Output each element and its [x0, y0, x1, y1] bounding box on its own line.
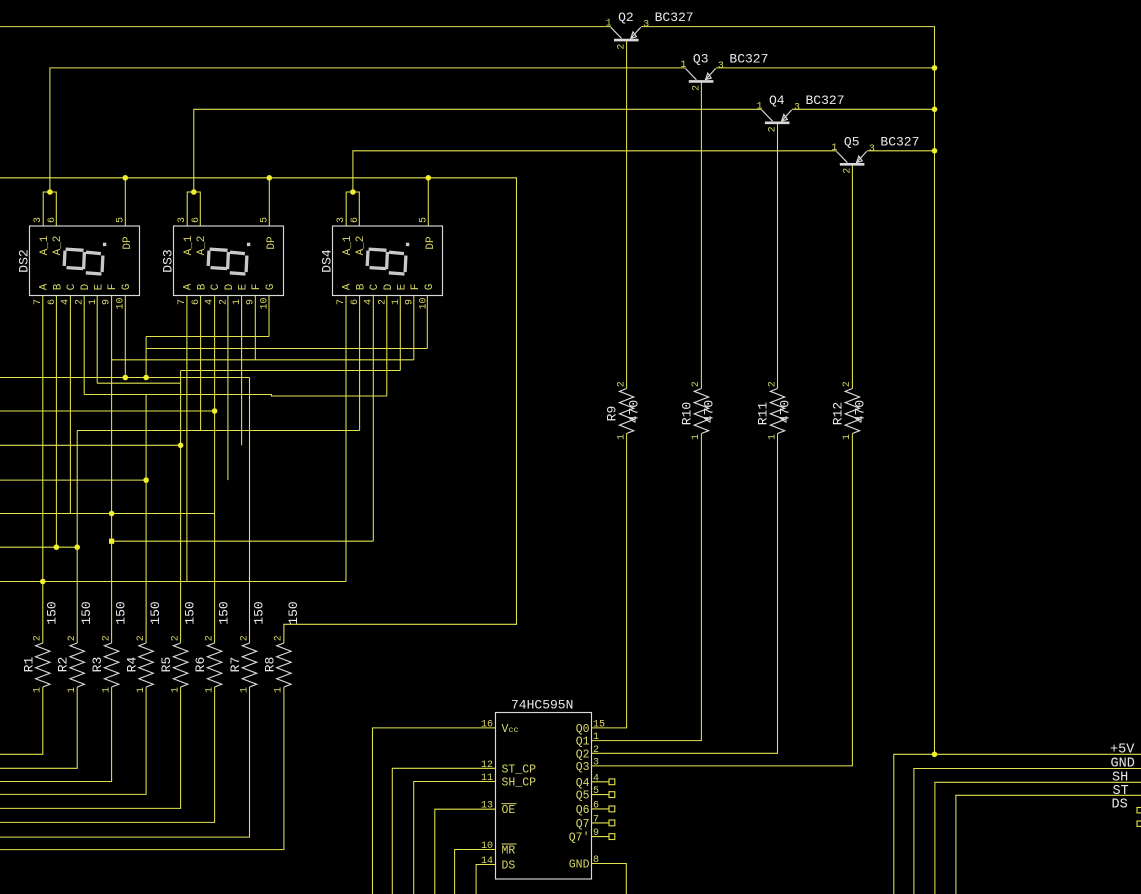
svg-text:R2: R2: [56, 657, 71, 673]
wire Q2 base net from left edge: [0, 26, 611, 28]
svg-text:R3: R3: [90, 657, 105, 673]
svg-text:Q7': Q7': [569, 832, 590, 845]
svg-text:14: 14: [481, 856, 493, 867]
svg-text:3: 3: [336, 217, 347, 223]
pin stub Q7' unconnected: [592, 834, 615, 840]
wire R5 bottom to left edge: [0, 687, 181, 808]
wire R3 bottom to left edge: [0, 687, 112, 782]
svg-text:11: 11: [481, 773, 493, 784]
svg-text:DS: DS: [502, 860, 516, 873]
transistor Q2 BC327: [611, 27, 641, 40]
svg-text:B: B: [196, 283, 208, 290]
wire DS2 pin F / R3 column: [111, 296, 113, 644]
pin stub Q5 unconnected: [592, 792, 615, 798]
resistor R9: [619, 389, 633, 434]
svg-text:5: 5: [116, 217, 127, 223]
svg-text:150: 150: [251, 601, 266, 624]
svg-text:1: 1: [391, 299, 402, 305]
wire R10 to Q1 output: [592, 434, 702, 741]
wire net C gather: [112, 540, 374, 542]
wire 74HC595N ST_CP input: [392, 768, 495, 894]
resistor R3: [104, 643, 118, 687]
svg-text:C: C: [210, 283, 222, 290]
resistor R4: [139, 643, 153, 687]
wire R2 bottom to left edge: [0, 687, 77, 768]
svg-text:BC327: BC327: [880, 134, 919, 149]
resistor R2: [70, 643, 84, 687]
wire DS4 pin B column: [359, 296, 361, 431]
svg-text:A: A: [183, 283, 195, 290]
svg-text:150: 150: [114, 601, 129, 624]
wire DS3 pin D column: [227, 296, 229, 481]
wire DS4 pin G column: [426, 296, 428, 349]
svg-text:E: E: [94, 283, 106, 290]
svg-text:1: 1: [33, 687, 44, 693]
transistor Q4 BC327: [762, 110, 792, 123]
svg-text:1: 1: [767, 434, 778, 440]
svg-text:10: 10: [259, 297, 270, 309]
svg-text:9: 9: [405, 299, 416, 305]
wire DS3 pin C / R6 column: [214, 296, 216, 644]
wire DS2 pin A / R1 column: [42, 296, 44, 644]
svg-text:7: 7: [177, 299, 188, 305]
wire 74HC595N SH_CP input: [414, 782, 496, 894]
svg-text:1: 1: [616, 434, 627, 440]
wire R2 column: [76, 431, 78, 644]
svg-text:R1: R1: [21, 657, 36, 673]
svg-text:R5: R5: [159, 657, 174, 673]
svg-text:Q7: Q7: [576, 818, 590, 831]
junction net C R3: [109, 511, 115, 517]
svg-text:1: 1: [88, 299, 99, 305]
svg-text:DS3: DS3: [161, 249, 176, 272]
svg-text:3: 3: [794, 102, 800, 113]
overbar for MR: [502, 843, 517, 845]
svg-text:Vcc: Vcc: [502, 723, 519, 736]
svg-text:F: F: [107, 284, 119, 291]
svg-text:Q5: Q5: [576, 790, 590, 803]
svg-text:10: 10: [481, 841, 493, 852]
wire Q5 base net to DS4 commons: [353, 151, 837, 192]
svg-text:A_1: A_1: [342, 235, 354, 255]
svg-text:E: E: [238, 283, 250, 290]
svg-text:D: D: [383, 283, 395, 290]
svg-text:1: 1: [232, 299, 243, 305]
svg-text:13: 13: [481, 801, 493, 812]
wire 74HC595N OE input: [435, 809, 496, 894]
svg-text:3: 3: [643, 20, 649, 31]
svg-text:R10: R10: [679, 402, 694, 425]
wire DP bus to R8: [0, 178, 517, 643]
svg-text:1: 1: [756, 101, 762, 112]
wire 74HC595N DS input: [476, 865, 495, 894]
svg-text:A: A: [342, 283, 354, 290]
svg-text:R7: R7: [228, 657, 243, 673]
svg-text:Q5: Q5: [844, 134, 860, 149]
wire +5V net: [894, 754, 1141, 894]
svg-text:R12: R12: [830, 402, 845, 425]
svg-text:470: 470: [627, 400, 642, 423]
wire 74HC595N GND to bottom: [592, 864, 627, 894]
svg-text:C: C: [66, 283, 78, 290]
svg-text:A: A: [39, 283, 51, 290]
wire R8 bottom to left edge: [0, 687, 284, 850]
wire DS4 DP pin riser: [427, 178, 429, 226]
svg-text:Q2: Q2: [618, 10, 634, 25]
svg-text:2: 2: [274, 635, 285, 641]
svg-text:DP: DP: [425, 236, 437, 250]
svg-text:10: 10: [115, 297, 126, 309]
wire Q3 collector to R10: [700, 81, 702, 388]
svg-text:6: 6: [47, 217, 58, 223]
wire Q4 collector to R11: [777, 123, 779, 389]
svg-text:SH_CP: SH_CP: [502, 777, 537, 790]
svg-text:4: 4: [593, 773, 599, 784]
svg-text:GND: GND: [1111, 757, 1135, 772]
svg-text:BC327: BC327: [655, 10, 694, 25]
svg-text:3: 3: [33, 217, 44, 223]
wire DS2 DP pin riser: [124, 178, 126, 226]
svg-text:10: 10: [418, 297, 429, 309]
wire R9 to Q0 output: [592, 434, 627, 728]
svg-text:BC327: BC327: [806, 93, 845, 108]
svg-text:1: 1: [170, 687, 181, 693]
wire R5 column: [180, 371, 182, 644]
wire GND net: [914, 769, 1141, 894]
resistor R11: [770, 389, 784, 434]
svg-text:F: F: [251, 284, 263, 291]
svg-text:OE: OE: [502, 804, 516, 817]
svg-text:7: 7: [336, 299, 347, 305]
junction DP bus DS2: [123, 175, 129, 181]
wire net G bus: [0, 377, 250, 379]
svg-text:R11: R11: [756, 402, 771, 426]
svg-text:150: 150: [217, 601, 232, 624]
svg-text:Q3: Q3: [693, 51, 709, 66]
wire net E bus: [0, 444, 181, 446]
wire DS3 pin G column: [268, 296, 270, 337]
wire Q4 emitter to rail: [792, 108, 935, 110]
svg-text:150: 150: [79, 601, 94, 624]
wire net F bus: [0, 410, 215, 412]
svg-text:A_2: A_2: [196, 236, 208, 256]
svg-text:2: 2: [33, 635, 44, 641]
wire DS3 DP pin riser: [268, 178, 270, 226]
junction net D R4: [143, 477, 149, 483]
svg-text:6: 6: [350, 217, 361, 223]
svg-text:1: 1: [67, 687, 78, 693]
resistor R12: [845, 389, 859, 434]
svg-text:74HC595N: 74HC595N: [511, 698, 573, 713]
svg-text:4: 4: [205, 299, 216, 305]
svg-text:G: G: [121, 284, 133, 291]
junction rail Q5: [932, 148, 938, 154]
resistor R1: [36, 643, 50, 687]
svg-text:MR: MR: [502, 845, 516, 858]
svg-text:12: 12: [481, 760, 493, 771]
svg-text:A_1: A_1: [39, 235, 51, 255]
7-segment display DS3: [174, 226, 284, 296]
wire net C bus: [0, 513, 215, 515]
7-segment display DS2: [30, 226, 140, 296]
wire DS4 pin A column: [345, 296, 347, 582]
junction net A R1: [40, 579, 46, 585]
wire 74HC595N MR input: [455, 850, 496, 894]
wire net A bus: [0, 581, 346, 583]
svg-text:6: 6: [191, 217, 202, 223]
wire DS3 pin E column: [241, 296, 243, 446]
svg-text:B: B: [355, 283, 367, 290]
resistor R8: [277, 643, 291, 687]
junction DS4 commons: [350, 189, 356, 195]
svg-text:DP: DP: [266, 236, 278, 250]
svg-text:2: 2: [593, 745, 599, 756]
svg-text:2: 2: [617, 44, 628, 50]
svg-text:E: E: [397, 283, 409, 290]
transistor Q5 BC327: [837, 151, 867, 164]
wire DS4 pin E column: [399, 296, 401, 371]
svg-text:+5V: +5V: [1110, 743, 1135, 758]
wire R7 bottom to left edge: [0, 687, 250, 837]
wire net E link: [97, 382, 180, 384]
wire Q3 emitter to rail: [716, 67, 935, 69]
svg-text:9: 9: [593, 828, 599, 839]
svg-text:1: 1: [593, 732, 599, 743]
transistor Q3 BC327: [686, 69, 716, 82]
svg-text:2: 2: [842, 168, 853, 174]
resistor R6: [207, 643, 221, 687]
junction net G collector: [143, 375, 149, 381]
svg-text:5: 5: [593, 786, 599, 797]
wire net G collector vertical: [145, 337, 147, 378]
svg-text:4: 4: [61, 299, 72, 305]
svg-text:9: 9: [246, 299, 257, 305]
svg-text:2: 2: [842, 381, 853, 387]
svg-text:A_2: A_2: [52, 236, 64, 256]
junction DS3 commons: [191, 189, 197, 195]
svg-text:2: 2: [136, 635, 147, 641]
wire SH net: [935, 782, 1141, 894]
svg-text:8: 8: [593, 855, 599, 866]
svg-text:Q2: Q2: [576, 748, 590, 761]
svg-text:470: 470: [701, 400, 716, 423]
svg-text:150: 150: [45, 601, 60, 624]
junction +5V rail: [932, 752, 938, 758]
svg-text:9: 9: [102, 299, 113, 305]
resistor R10: [694, 389, 708, 434]
resistor R7: [242, 643, 256, 687]
svg-text:D: D: [224, 283, 236, 290]
svg-text:1: 1: [842, 434, 853, 440]
junction net E R5: [178, 443, 184, 449]
pin stub Q6 unconnected: [592, 806, 615, 812]
wire DS2 pin C column: [69, 296, 71, 514]
svg-text:1: 1: [831, 143, 837, 154]
svg-text:G: G: [424, 284, 436, 291]
svg-text:R8: R8: [262, 657, 277, 673]
wire net E gather: [181, 370, 401, 372]
wire 74HC595N Vcc input: [373, 728, 496, 894]
wire R1 bottom to left edge: [0, 687, 43, 754]
pin square right edge upper: [1137, 808, 1141, 813]
wire Q5 collector to R12: [851, 164, 853, 388]
svg-text:2: 2: [239, 635, 250, 641]
junction DS2 commons: [47, 189, 53, 195]
svg-text:Q4: Q4: [576, 777, 590, 790]
svg-text:R6: R6: [193, 657, 208, 673]
svg-text:A_1: A_1: [183, 235, 195, 255]
wire R11 to Q2 output: [592, 434, 778, 754]
svg-text:A_2: A_2: [355, 236, 367, 256]
wire DS3 pin B column: [200, 296, 202, 431]
svg-text:15: 15: [593, 719, 605, 730]
wire DS4 pin F column: [413, 296, 415, 360]
junction DP bus DS4: [426, 175, 432, 181]
IC U1 74HC595N box: [496, 713, 592, 880]
svg-text:2: 2: [691, 85, 702, 91]
junction rail Q4: [932, 107, 938, 113]
svg-text:2: 2: [616, 381, 627, 387]
wire R7 column: [249, 378, 251, 644]
svg-text:Q1: Q1: [576, 736, 590, 749]
svg-text:150: 150: [183, 601, 198, 624]
wire DS2 pin G column: [124, 296, 126, 378]
wire net G lower link: [146, 348, 427, 350]
svg-text:2: 2: [691, 381, 702, 387]
svg-text:2: 2: [170, 635, 181, 641]
wire R4 column: [145, 395, 147, 644]
wire Q4 base net to DS3 commons: [194, 109, 762, 192]
svg-text:2: 2: [204, 635, 215, 641]
wire Q3 base net to DS2 commons: [50, 68, 686, 192]
wire ST net: [956, 795, 1141, 894]
svg-text:1: 1: [136, 687, 147, 693]
svg-text:4: 4: [364, 299, 375, 305]
svg-text:3: 3: [718, 61, 724, 72]
svg-text:R4: R4: [125, 657, 140, 673]
svg-text:2: 2: [101, 635, 112, 641]
svg-text:DS2: DS2: [17, 249, 32, 272]
svg-text:G: G: [265, 284, 277, 291]
svg-text:Q4: Q4: [769, 93, 785, 108]
svg-text:2: 2: [377, 299, 388, 305]
wire DS2 pin E column: [96, 296, 98, 384]
wire net B bus: [0, 546, 77, 548]
svg-text:2: 2: [218, 299, 229, 305]
overbar for OE: [502, 803, 517, 805]
wire net B gather: [77, 430, 359, 432]
resistor R5: [173, 643, 187, 687]
wire DS3 pin A column: [186, 296, 188, 582]
wire net G upper link: [146, 336, 269, 338]
wire DS2 pin B column: [55, 296, 57, 548]
svg-text:6: 6: [593, 800, 599, 811]
wire Q2 collector to R9: [626, 40, 628, 388]
svg-text:16: 16: [481, 719, 493, 730]
wire net F gather: [112, 359, 414, 361]
wire DS3 pin F column: [254, 296, 256, 360]
svg-text:470: 470: [852, 400, 867, 423]
svg-text:5: 5: [419, 217, 430, 223]
svg-text:DS: DS: [1112, 798, 1128, 813]
wire net D link left: [84, 395, 387, 397]
svg-text:1: 1: [680, 60, 686, 71]
svg-text:F: F: [410, 284, 422, 291]
svg-text:6: 6: [350, 299, 361, 305]
svg-text:7: 7: [33, 299, 44, 305]
svg-text:C: C: [369, 283, 381, 290]
7-segment display DS4: [333, 226, 443, 296]
wire R4 bottom to left edge: [0, 687, 146, 794]
svg-text:3: 3: [869, 144, 875, 155]
wire DS2 pin D column: [83, 296, 85, 395]
svg-text:2: 2: [67, 635, 78, 641]
svg-text:R9: R9: [605, 406, 620, 422]
svg-text:1: 1: [606, 19, 612, 30]
wire R6 bottom to left edge: [0, 687, 215, 822]
svg-text:150: 150: [148, 601, 163, 624]
svg-text:5: 5: [260, 217, 271, 223]
svg-text:6: 6: [191, 299, 202, 305]
wire DS4 pin D column: [386, 296, 388, 397]
svg-text:150: 150: [286, 601, 301, 624]
wire Q2 emitter to +5V rail: [641, 27, 934, 755]
svg-text:6: 6: [47, 299, 58, 305]
svg-text:1: 1: [691, 434, 702, 440]
wire DS4 anode pins loop: [346, 192, 359, 226]
svg-text:ST_CP: ST_CP: [502, 763, 537, 776]
pin stub Q7 unconnected: [592, 820, 615, 826]
junction net G DS2 pin: [123, 375, 129, 381]
svg-text:B: B: [52, 283, 64, 290]
junction rail Q3: [932, 65, 938, 71]
wire DS2 anode pins loop: [43, 192, 56, 226]
svg-text:2: 2: [74, 299, 85, 305]
pin stub Q4 unconnected: [592, 779, 615, 785]
svg-text:BC327: BC327: [729, 51, 768, 66]
svg-text:Q0: Q0: [576, 723, 590, 736]
svg-text:Q6: Q6: [576, 804, 590, 817]
junction net B DS2 pin: [54, 544, 60, 550]
junction net C gather square: [109, 539, 114, 544]
svg-text:470: 470: [777, 400, 792, 423]
svg-text:1: 1: [101, 687, 112, 693]
wire net D bus: [0, 479, 146, 481]
svg-text:2: 2: [768, 126, 779, 132]
svg-text:3: 3: [593, 757, 599, 768]
svg-text:3: 3: [177, 217, 188, 223]
svg-text:2: 2: [767, 381, 778, 387]
svg-text:1: 1: [204, 687, 215, 693]
wire Q5 emitter to rail: [867, 150, 935, 152]
junction DP bus DS3: [267, 175, 273, 181]
wire DS4 pin C column: [372, 296, 374, 542]
junction net F R6: [212, 408, 218, 414]
wire DS3 anode pins loop: [187, 192, 200, 226]
svg-text:D: D: [80, 283, 92, 290]
svg-text:DS4: DS4: [320, 249, 335, 273]
svg-text:7: 7: [593, 814, 599, 825]
svg-text:GND: GND: [569, 859, 590, 872]
svg-text:1: 1: [239, 687, 250, 693]
svg-text:Q3: Q3: [576, 761, 590, 774]
junction net B R2: [74, 544, 80, 550]
svg-text:1: 1: [274, 687, 285, 693]
wire R12 to Q3 output: [592, 434, 853, 766]
pin square right edge lower: [1137, 821, 1141, 826]
svg-text:DP: DP: [122, 236, 134, 250]
